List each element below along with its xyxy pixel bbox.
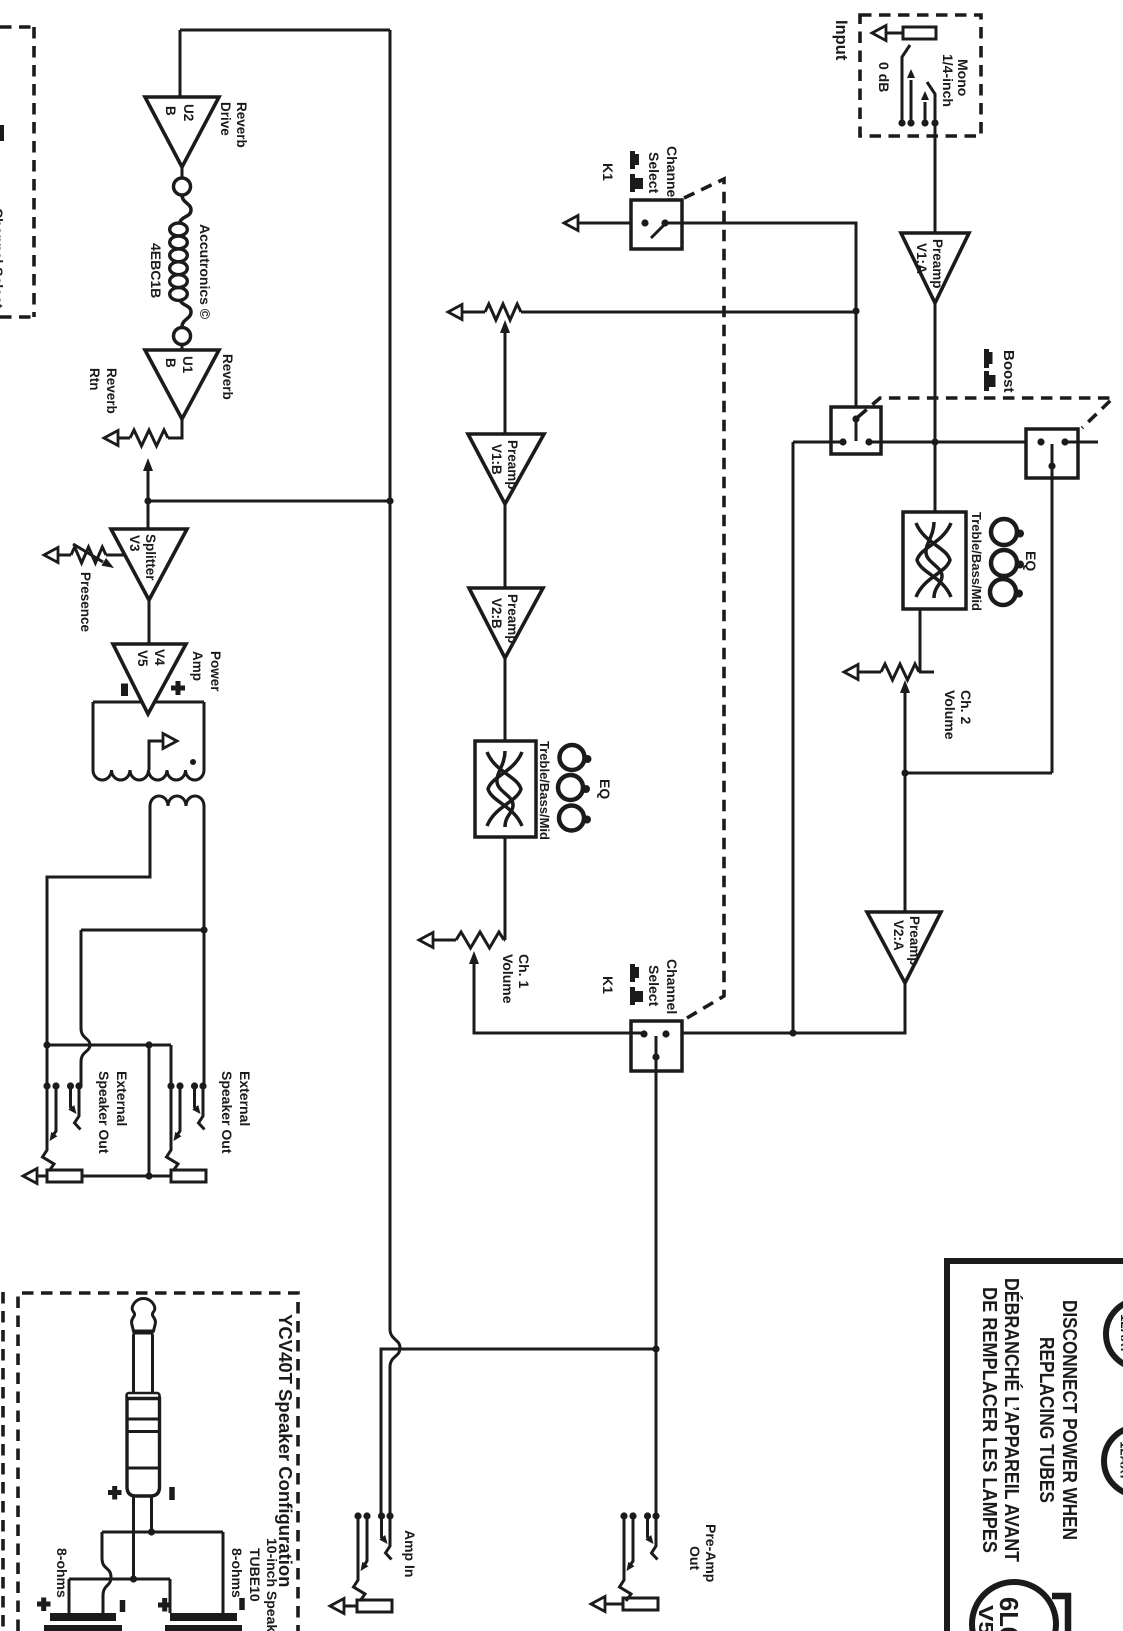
wire V1:A output to EQ xyxy=(934,303,937,512)
svg-text:Volume: Volume xyxy=(500,954,516,1004)
svg-text:12AX7: 12AX7 xyxy=(1118,1314,1123,1354)
op-amp V1:B preamp triangle xyxy=(468,434,544,504)
svg-text:U2: U2 xyxy=(181,104,196,121)
footswitch legend dashed box (cut) xyxy=(0,27,34,317)
label Splitter V3 xyxy=(127,534,158,581)
speaker 1 minus xyxy=(120,1600,126,1612)
svg-text:8-ohms: 8-ohms xyxy=(54,1548,70,1598)
amp in jack resistor xyxy=(357,1600,392,1612)
label Pre-Amp Out xyxy=(687,1524,719,1582)
speaker 1 (10-inch) xyxy=(44,1613,122,1631)
svg-text:Ch. 1: Ch. 1 xyxy=(516,954,532,988)
wire resistor link xyxy=(82,1175,171,1178)
pre-amp out jack resistor xyxy=(623,1598,658,1610)
svg-text:Channel Select: Channel Select xyxy=(0,208,6,309)
relay boost left contacts xyxy=(839,415,872,445)
relay K1 contact box (top) xyxy=(631,200,682,249)
wire speaker plus bus xyxy=(69,1578,170,1581)
node ch2 wiper junction xyxy=(901,769,908,776)
transformer phase dot xyxy=(190,759,196,765)
speaker jack 1 ground arrow xyxy=(23,1169,47,1184)
phone plug collar xyxy=(127,1393,160,1399)
wire minus branch left with hop xyxy=(102,1532,111,1613)
label External Speaker Out (left) xyxy=(96,1071,130,1154)
wire boost to wiper node xyxy=(905,772,1052,775)
pot Ch.1 wiper arrow xyxy=(469,951,644,1033)
wire V2:A output xyxy=(666,983,905,1033)
label Preamp V1:A xyxy=(914,239,945,289)
reverb wiper arrow xyxy=(143,458,153,501)
wire channel select arrow out xyxy=(564,216,645,231)
svg-text:12AX7: 12AX7 xyxy=(1118,1441,1123,1481)
op-amp V1:A preamp triangle xyxy=(901,233,969,303)
wire node to splitter xyxy=(147,501,150,529)
wire speaker minus bus xyxy=(102,1531,223,1534)
speaker 2 (10-inch) xyxy=(165,1613,242,1631)
phone plug tip band xyxy=(133,1330,154,1335)
svg-text:Rtn: Rtn xyxy=(87,368,102,391)
volume pot between channels xyxy=(448,304,856,320)
node wire junction x856 xyxy=(852,307,859,314)
speaker 2 plus xyxy=(158,1598,172,1612)
svg-text:V1:A: V1:A xyxy=(914,243,929,274)
wire speaker bus xyxy=(47,1045,171,1086)
op-amp V2:A preamp triangle xyxy=(867,912,941,983)
relay K1 coil icon b xyxy=(630,174,643,192)
svg-text:K1: K1 xyxy=(600,976,616,994)
wire boost row stub xyxy=(1065,441,1098,444)
boost switch icon b xyxy=(984,371,996,391)
svg-text:External: External xyxy=(237,1071,253,1126)
EQ ch1 knob treble xyxy=(560,745,592,770)
wire EQ ch2 to volume pot xyxy=(919,609,922,672)
label Reverb Rtn xyxy=(87,368,119,414)
phone plug shaft xyxy=(134,1335,153,1394)
label Power Amp xyxy=(190,651,223,692)
svg-text:Accutronics ©: Accutronics © xyxy=(197,224,213,320)
svg-text:Boost: Boost xyxy=(1000,350,1017,393)
svg-text:Preamp: Preamp xyxy=(505,440,520,490)
power amp minus sign xyxy=(121,684,128,697)
op-amp U2 reverb drive triangle xyxy=(145,97,219,167)
phone plug barrel lines xyxy=(127,1419,160,1468)
wire boost row left xyxy=(793,441,843,444)
svg-text:DISCONNECT POWER WHEN: DISCONNECT POWER WHEN xyxy=(1058,1300,1080,1540)
relay boost right contacts xyxy=(1037,438,1068,479)
relay K1 coil icon c xyxy=(630,964,639,982)
svg-text:Channel: Channel xyxy=(664,146,680,201)
svg-text:Amp: Amp xyxy=(190,651,205,681)
svg-text:Select: Select xyxy=(646,152,662,194)
tube circle 2 (cut) xyxy=(1104,1427,1123,1495)
svg-text:Input: Input xyxy=(832,20,850,61)
svg-text:Presence: Presence xyxy=(78,572,93,633)
EQ ch2 knob bass xyxy=(991,550,1024,576)
svg-text:8-ohms: 8-ohms xyxy=(229,1548,245,1598)
speaker 2 minus xyxy=(239,1598,245,1610)
wire V1:B to V2:B xyxy=(504,504,507,588)
pot Ch.1 Volume xyxy=(419,932,505,948)
wire U2 to RCA jack xyxy=(181,167,184,178)
EQ block channel 1 xyxy=(475,741,536,837)
svg-text:B: B xyxy=(163,358,178,368)
jack Amp In xyxy=(354,1512,394,1601)
EQ ch1 knob mid xyxy=(559,806,591,831)
phone plug barrel xyxy=(127,1399,160,1497)
label Preamp V1:B xyxy=(489,440,520,490)
svg-text:EQ: EQ xyxy=(597,779,613,799)
boost switch icon a xyxy=(984,349,993,368)
wire boost row mid xyxy=(869,441,1041,444)
svg-text:Out: Out xyxy=(687,1546,703,1570)
wire minus branch right xyxy=(222,1532,225,1613)
input jack pin 4 (tip) xyxy=(927,82,935,123)
pot Ch.2 Volume xyxy=(844,664,934,680)
node pre-amp out tee xyxy=(652,1345,659,1352)
wire plug tip lead xyxy=(132,1496,135,1579)
jack external speaker out 1 xyxy=(43,1082,83,1171)
pot Ch.2 wiper arrow xyxy=(900,680,910,912)
node V1:A output / boost junction xyxy=(931,438,938,445)
wire K1 to boost relay xyxy=(665,223,856,419)
input jack pin 1 (sleeve) xyxy=(902,45,910,123)
speaker jack 2 resistor xyxy=(171,1170,206,1182)
svg-text:Preamp: Preamp xyxy=(505,594,520,644)
relay K1 contact box (bottom) xyxy=(631,1021,682,1071)
svg-text:B: B xyxy=(163,106,178,116)
wire plug sleeve lead xyxy=(150,1496,153,1532)
label U1 B xyxy=(163,356,195,374)
svg-text:Speaker Out: Speaker Out xyxy=(219,1071,235,1154)
svg-text:K1: K1 xyxy=(600,163,616,181)
wire EQ ch1 to volume pot xyxy=(504,837,507,940)
svg-text:Drive: Drive xyxy=(218,102,233,136)
pot Reverb Rtn xyxy=(104,419,182,446)
svg-text:Reverb: Reverb xyxy=(104,368,119,414)
EQ ch1 knob bass xyxy=(558,775,590,800)
relay K1 top contacts xyxy=(641,219,668,238)
svg-text:Pre-Amp: Pre-Amp xyxy=(703,1524,719,1582)
svg-text:Select: Select xyxy=(646,965,662,1007)
wire reverb node to rail xyxy=(148,500,390,503)
transformer T1 primary xyxy=(93,702,204,780)
svg-text:External: External xyxy=(114,1071,130,1126)
relay boost contact box (right) xyxy=(1026,429,1078,478)
node plug sleeve junction xyxy=(148,1528,155,1535)
label U2 B xyxy=(163,104,196,121)
tube circle 6L6 V5 xyxy=(972,1582,1056,1631)
svg-text:REPLACING TUBES: REPLACING TUBES xyxy=(1035,1337,1057,1503)
svg-text:Amp In: Amp In xyxy=(402,1530,418,1577)
tube circle 1 (cut) xyxy=(1106,1300,1123,1368)
node relay feed junction xyxy=(789,1029,796,1036)
pre-amp out ground arrow xyxy=(591,1597,623,1612)
wire RCA to U1 xyxy=(181,345,184,350)
wire plus branch right xyxy=(169,1579,172,1613)
svg-text:Reverb: Reverb xyxy=(234,102,249,148)
svg-text:Speaker Out: Speaker Out xyxy=(96,1071,112,1154)
wire main rail xyxy=(180,30,390,97)
node rail reverb junction xyxy=(386,497,393,504)
pot Presence xyxy=(44,547,124,563)
node reverb mix junction xyxy=(144,497,151,504)
input termination resistor xyxy=(903,27,936,39)
RCA connector (reverb send) xyxy=(174,178,191,195)
op-amp U1 reverb return triangle xyxy=(145,350,219,419)
svg-text:U1: U1 xyxy=(180,356,195,374)
svg-text:V2:B: V2:B xyxy=(489,598,504,629)
svg-text:Preamp: Preamp xyxy=(907,916,922,966)
dashed link K1 (top) xyxy=(684,179,724,1018)
wire speaker feed with hop xyxy=(81,930,90,1086)
EQ ch2 knob mid xyxy=(990,579,1023,605)
wire pre-amp out to amp in xyxy=(381,1349,656,1516)
op-amp V2:B preamp triangle xyxy=(469,588,543,658)
wire V2:B to EQ ch1 xyxy=(504,658,507,741)
label plug plus xyxy=(108,1486,122,1500)
label Preamp V2:A xyxy=(891,916,922,966)
wire input to V1:A xyxy=(934,123,937,233)
EQ ch2 knob treble xyxy=(991,519,1024,545)
svg-text:TUBE10: TUBE10 xyxy=(247,1548,263,1602)
wire relay to pre-amp out xyxy=(655,1071,658,1516)
input jack dashed box xyxy=(860,15,981,136)
svg-text:V2:A: V2:A xyxy=(891,920,906,951)
relay K1 coil icon a xyxy=(630,151,639,169)
svg-text:4EBC1B: 4EBC1B xyxy=(148,243,164,298)
svg-text:0 dB: 0 dB xyxy=(876,62,892,92)
label External Speaker Out (right) xyxy=(219,1071,253,1154)
transformer T1 secondary xyxy=(47,796,204,1086)
svg-text:DÉBRANCHÉ L’APPAREIL AVANT: DÉBRANCHÉ L’APPAREIL AVANT xyxy=(1000,1278,1023,1562)
input jack terminal dots xyxy=(898,119,938,126)
wire boost rail down xyxy=(792,442,795,1033)
svg-text:Treble/Bass/Mid: Treble/Bass/Mid xyxy=(969,512,984,611)
svg-text:Volume: Volume xyxy=(942,690,958,740)
speaker 1 plus xyxy=(37,1598,51,1612)
svg-text:Ch. 2: Ch. 2 xyxy=(958,690,974,724)
wire rail vertical with hop xyxy=(390,30,400,1516)
op-amp V4 V5 power amp triangle xyxy=(113,644,186,714)
svg-text:Preamp: Preamp xyxy=(930,239,945,289)
svg-text:Reverb: Reverb xyxy=(220,354,235,400)
amp in ground arrow xyxy=(330,1599,357,1614)
svg-text:10-inch Speakers: 10-inch Speakers xyxy=(264,1538,280,1631)
pot wiper arrow to V1:B xyxy=(500,320,510,434)
svg-text:Channel: Channel xyxy=(664,959,680,1014)
label Channel Select (top) xyxy=(646,146,680,201)
wire boost relay right to V2:A node xyxy=(1051,479,1054,773)
dashed link boost xyxy=(858,398,1113,428)
jack external speaker out 2 xyxy=(167,1082,207,1171)
label Reverb Drive xyxy=(218,102,249,148)
label V4 V5 xyxy=(135,649,167,667)
RCA connector (reverb return) xyxy=(174,328,191,345)
svg-text:Power: Power xyxy=(208,651,223,692)
svg-text:V3: V3 xyxy=(127,535,142,552)
label plug minus xyxy=(169,1487,175,1500)
input jack pin 2 contact arrow xyxy=(907,69,915,123)
relay K1 coil icon d xyxy=(630,987,643,1005)
relay boost contact box (left) xyxy=(831,407,881,454)
speaker jack 1 resistor xyxy=(47,1170,82,1182)
wire plus branch left xyxy=(68,1579,71,1613)
jack Pre-Amp Out xyxy=(620,1512,660,1601)
wire bus to resistor link xyxy=(148,1045,151,1176)
svg-text:Treble/Bass/Mid: Treble/Bass/Mid xyxy=(537,741,552,840)
svg-text:V4: V4 xyxy=(152,649,167,666)
svg-text:EQ: EQ xyxy=(1023,551,1039,571)
relay K1 bottom contacts xyxy=(640,1030,669,1071)
node speaker bus left xyxy=(43,1041,50,1048)
svg-text:6L6: 6L6 xyxy=(994,1597,1024,1631)
svg-text:V1:B: V1:B xyxy=(489,444,504,475)
node secondary tap xyxy=(200,926,207,933)
svg-text:DE REMPLACER LES LAMPES: DE REMPLACER LES LAMPES xyxy=(978,1287,1000,1553)
chassis bracket xyxy=(1052,1596,1068,1631)
transformer feedback arrow xyxy=(149,734,177,771)
wire V3 to power amp xyxy=(148,600,151,644)
label Preamp V2:B xyxy=(489,594,520,644)
svg-text:Splitter: Splitter xyxy=(143,534,158,581)
input jack ground arrow xyxy=(872,26,903,41)
EQ block channel 2 xyxy=(903,512,966,609)
power amp plus sign xyxy=(171,681,185,695)
tube chart box xyxy=(947,1261,1123,1631)
node speaker bus mid xyxy=(145,1041,152,1048)
op-amp V3 splitter triangle xyxy=(111,529,187,600)
speaker configuration dashed box xyxy=(18,1293,298,1631)
svg-text:1/4-inch: 1/4-inch xyxy=(940,54,956,107)
node plug tip junction xyxy=(130,1575,137,1582)
svg-text:V5: V5 xyxy=(974,1605,996,1631)
reverb tank coil Accutronics 4EBC1B xyxy=(170,195,191,327)
node resistor link xyxy=(145,1172,152,1179)
presence rheostat arrow xyxy=(73,544,116,572)
label Channel Select (bottom) xyxy=(646,959,680,1014)
svg-text:V5: V5 xyxy=(135,650,150,667)
svg-text:Mono: Mono xyxy=(955,59,971,96)
second config box dashed edge xyxy=(1,1292,5,1631)
phone plug tip xyxy=(132,1299,156,1332)
footswitch legend icon sliver xyxy=(0,125,4,141)
input jack pin 3 contact arrow xyxy=(921,91,929,123)
